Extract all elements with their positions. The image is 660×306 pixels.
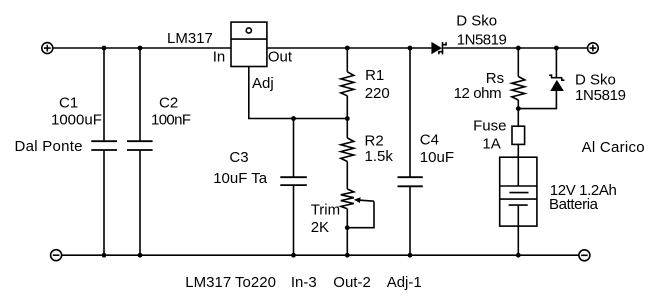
node Rs top [516,46,521,51]
svg-text:220: 220 [365,85,390,102]
resistor Rs [512,77,525,101]
fuse F1 [512,126,525,144]
svg-text:D Sko: D Sko [575,71,616,88]
node Adj divider junction [345,116,350,121]
svg-text:1.5k: 1.5k [365,148,394,165]
wire C4 branch upper [409,48,411,177]
capacitor C2 [127,141,153,150]
svg-text:12 ohm: 12 ohm [454,85,502,102]
wire C4 branch lower [409,186,411,255]
svg-text:C2: C2 [159,95,178,112]
wire fuse to battery [517,144,519,157]
wire C2 branch lower [139,150,141,255]
wire D2 top lead [555,48,557,78]
svg-text:2K: 2K [311,219,329,236]
svg-text:In-3: In-3 [291,274,317,291]
wire Adj to divider [249,67,347,119]
svg-text:D Sko: D Sko [456,13,497,30]
svg-text:Trim: Trim [311,202,340,219]
wire C1 branch upper [103,48,105,141]
battery B1 [500,157,537,226]
node C1 top [102,46,107,51]
wire R1 bottom lead [346,96,348,119]
node D2 top [554,46,559,51]
capacitor C4 [398,177,423,186]
svg-text:1A: 1A [482,136,500,153]
wire C2 branch upper [139,48,141,141]
svg-text:Out: Out [268,49,293,66]
terminal input plus [42,43,53,54]
node C3 top [291,116,296,121]
terminal output minus [579,250,590,261]
svg-text:In: In [213,49,226,66]
node Rs bottom junction [516,106,521,111]
diode D1 Schottky 1N5819 [431,42,446,55]
terminal output plus [588,43,599,54]
terminal input minus [51,250,62,261]
svg-text:10uF Ta: 10uF Ta [213,170,268,187]
diode D2 Schottky 1N5819 [549,75,564,91]
svg-text:10uF: 10uF [420,149,454,166]
capacitor C3 [280,177,307,185]
svg-text:C3: C3 [229,149,248,166]
svg-text:Fuse: Fuse [473,118,506,135]
wire bottom rail [62,254,579,256]
node C1 bottom [102,253,107,258]
node R1 top [345,46,350,51]
resistor R1 [341,72,354,96]
wire C3 branch lower [293,185,295,255]
svg-text:Adj-1: Adj-1 [387,274,422,291]
wire battery to bottom rail [517,226,519,255]
wire Rs top lead [517,48,519,77]
capacitor C1 [91,141,117,150]
potentiometer Trim 2K [341,189,354,209]
svg-text:1000uF: 1000uF [51,112,102,129]
wire C3 branch upper [293,119,295,178]
svg-text:1N5819: 1N5819 [575,87,626,104]
svg-text:100nF: 100nF [151,112,191,129]
svg-text:Out-2: Out-2 [333,274,371,291]
wire trim bottom lead [346,209,348,255]
svg-text:LM317: LM317 [167,30,213,47]
wire R1 top lead [346,48,348,72]
wire D2 bottom lead [518,91,556,109]
wiper arrowhead [354,197,361,203]
node C4 top [408,46,413,51]
svg-text:R2: R2 [365,133,384,150]
node C2 top [138,46,143,51]
svg-text:Dal Ponte: Dal Ponte [15,138,83,155]
regulator U1 LM317 TO-220 body [231,22,267,66]
wire C1 branch lower [103,150,105,255]
svg-text:Batteria: Batteria [549,196,599,213]
node C2 bottom [138,253,143,258]
svg-text:1N5819: 1N5819 [457,31,507,48]
node C3 bottom [291,253,296,258]
node trim wiper junction [345,225,350,230]
wire R2 bottom lead [346,162,348,190]
node trim bottom [345,253,350,258]
wire top rail mid [267,47,432,49]
svg-text:Al Carico: Al Carico [582,139,645,156]
wire R2 top lead [346,119,348,139]
svg-text:LM317 To220: LM317 To220 [185,274,276,291]
wire top rail left [53,47,231,49]
node battery bottom [516,253,521,258]
resistor R2 [341,138,354,162]
wire Rs bottom lead [517,100,519,126]
svg-text:C4: C4 [420,132,439,149]
svg-text:Adj: Adj [252,75,274,92]
svg-text:R1: R1 [365,67,384,84]
wire trim wiper arm [347,200,374,228]
wire top rail right [444,47,588,49]
node C4 bottom [408,253,413,258]
svg-text:C1: C1 [59,95,78,112]
